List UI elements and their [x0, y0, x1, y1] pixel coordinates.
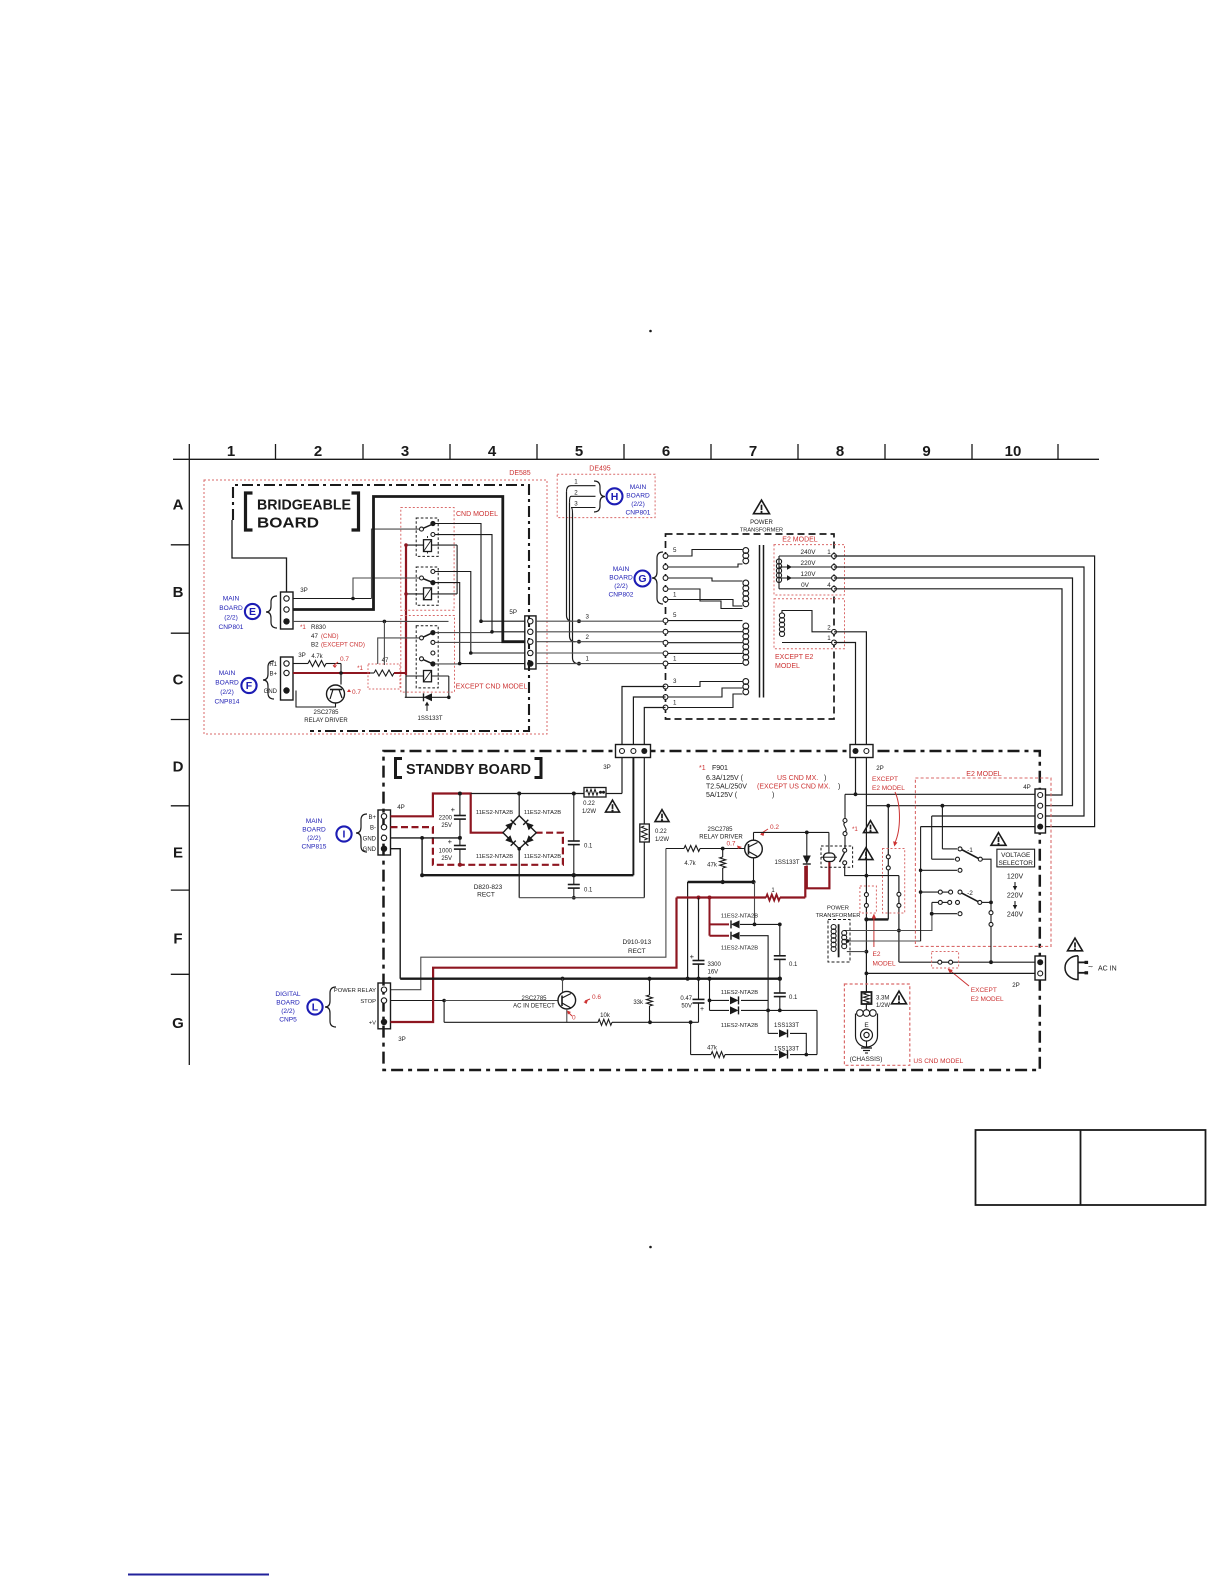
svg-text:47: 47 [382, 658, 389, 664]
svg-text:*1: *1 [852, 826, 858, 833]
H pins hooks to wire bundle [567, 486, 572, 492]
svg-text:5: 5 [575, 443, 583, 460]
secondary top wire to switch area [844, 930, 847, 932]
fuse F901 symbol [844, 794, 846, 818]
svg-text:TRANSFORMER: TRANSFORMER [740, 528, 783, 534]
svg-text:4: 4 [488, 443, 497, 460]
svg-text:BOARD: BOARD [276, 1000, 300, 1007]
svg-text:VOLTAGE: VOLTAGE [1001, 852, 1030, 859]
power transformer standby dashed box [828, 920, 850, 963]
secondary coil EXCEPT E2 [779, 613, 784, 618]
svg-text:2SC2785: 2SC2785 [521, 996, 547, 1002]
svg-text:3300: 3300 [708, 962, 722, 968]
bridge top node wire [518, 794, 520, 816]
maroon from diode to relay coil [807, 861, 830, 888]
gray wire relay3 left circle [378, 638, 420, 664]
switch -2 row1 [919, 890, 923, 894]
EXCEPT E2 secondary red dotted box [774, 599, 845, 649]
svg-text:I: I [343, 829, 346, 841]
relay RY901 dashed box [821, 846, 853, 867]
svg-text:AC IN: AC IN [1098, 966, 1117, 973]
svg-text:3.3M: 3.3M [876, 996, 889, 1002]
svg-text:25V: 25V [441, 856, 452, 862]
svg-text:AC IN DETECT: AC IN DETECT [513, 1004, 555, 1010]
row y794.3 to 4P pin1 [845, 793, 1035, 795]
primary coil group2 [743, 580, 749, 586]
top rail y793.5 [471, 793, 584, 795]
svg-text:4.7k: 4.7k [684, 861, 696, 867]
relay RY1 coil [424, 540, 432, 552]
svg-text:240V: 240V [1007, 912, 1024, 919]
svg-text:11ES2-NTA2B: 11ES2-NTA2B [721, 990, 758, 996]
diode 1SS133T row [405, 696, 449, 698]
connector E CNP801 3P [281, 592, 294, 629]
transistor emitter wire to GND [296, 691, 336, 708]
svg-text:(2/2): (2/2) [614, 583, 628, 590]
svg-text:1SS133T: 1SS133T [774, 1047, 799, 1053]
svg-text:0.7: 0.7 [340, 656, 349, 663]
svg-text:25V: 25V [441, 823, 452, 829]
svg-text:11ES2-NTA2B: 11ES2-NTA2B [721, 914, 758, 920]
svg-text:GND: GND [363, 836, 377, 842]
vertical 866.4 with jumper E2 [865, 805, 867, 892]
grid row ticks [171, 544, 190, 546]
wire relay contact bottom [845, 865, 899, 876]
transformer primary pins group1 [663, 554, 668, 559]
svg-text:(2/2): (2/2) [220, 689, 234, 696]
transformer primary pins group3 [663, 684, 668, 689]
coil tap wire to voltage selector corner [920, 940, 922, 942]
svg-text:3: 3 [673, 678, 677, 685]
relay coil 2 feed wire [406, 593, 457, 595]
wire STOP to base and rail [391, 1000, 445, 1002]
switch -2 blade [962, 893, 978, 901]
svg-text:BOARD: BOARD [626, 493, 650, 500]
svg-text:L: L [312, 1002, 319, 1014]
switch -1 common down [982, 859, 991, 962]
svg-text:2: 2 [586, 634, 590, 641]
svg-text:BOARD: BOARD [609, 575, 633, 582]
svg-text:220V: 220V [801, 560, 817, 567]
svg-text:D910-913: D910-913 [623, 939, 652, 946]
transformer standby secondary coil [842, 931, 847, 936]
svg-text:5: 5 [673, 547, 677, 554]
wire 3P pin1 down to rail [621, 758, 623, 794]
svg-text:50V: 50V [681, 1004, 692, 1010]
svg-text:3P: 3P [603, 764, 611, 771]
svg-text:B+: B+ [368, 815, 376, 821]
svg-text:H: H [611, 491, 619, 503]
svg-text:BOARD: BOARD [219, 605, 243, 612]
svg-text:1: 1 [673, 656, 677, 663]
red dashed box CND MODEL [401, 508, 454, 611]
svg-text:(EXCEPT US CND MX.: (EXCEPT US CND MX. [757, 784, 830, 791]
svg-text:): ) [824, 775, 826, 782]
switch -1 wires [941, 806, 943, 849]
wire except-E2 pin2 down to standby 2P [834, 632, 866, 748]
wire to spark gap [865, 1004, 867, 1010]
svg-text:0.1: 0.1 [584, 888, 593, 894]
svg-text:MODEL: MODEL [873, 961, 897, 968]
svg-text:POWER: POWER [827, 906, 849, 912]
row to 5P pin5 [460, 663, 525, 665]
rows 5P to power transformer [536, 620, 666, 622]
wire D911 output [740, 936, 768, 1034]
svg-text:11ES2-NTA2B: 11ES2-NTA2B [721, 946, 758, 952]
svg-text:(EXCEPT CND): (EXCEPT CND) [321, 642, 365, 649]
emitter of Q902 to 10k rail [566, 1009, 568, 1022]
svg-text:EXCEPT: EXCEPT [971, 987, 997, 994]
svg-text:T2.5AL/250V: T2.5AL/250V [706, 784, 747, 791]
svg-text:MAIN: MAIN [306, 818, 323, 825]
svg-text:RECT: RECT [477, 892, 495, 899]
vertical 898.9 with jumper [898, 876, 900, 893]
svg-text:MAIN: MAIN [613, 566, 630, 573]
svg-text:B+: B+ [269, 672, 277, 678]
relay RY3 coil [424, 671, 432, 682]
svg-text:(CND): (CND) [321, 633, 339, 640]
svg-text:3P: 3P [398, 1036, 406, 1043]
svg-text:(CHASSIS): (CHASSIS) [850, 1056, 883, 1063]
circled node G [635, 571, 651, 587]
wire 2P filled pin down [855, 758, 857, 795]
wire GND2 down [391, 849, 401, 979]
brace for connector F [263, 661, 274, 699]
svg-text:0: 0 [572, 1015, 576, 1022]
maroon wire B+ to bridge [391, 794, 504, 833]
svg-text:(2/2): (2/2) [631, 501, 645, 508]
secondary voltage rows [779, 555, 834, 557]
svg-text:(2/2): (2/2) [281, 1008, 295, 1015]
standby board title [396, 759, 403, 778]
svg-text:B2: B2 [311, 642, 319, 649]
svg-text:3P: 3P [298, 652, 306, 659]
grid left rail [188, 444, 190, 1065]
svg-text:*1: *1 [699, 765, 706, 772]
svg-text:2SC2785: 2SC2785 [707, 827, 733, 833]
resistor 47 red dotted box [368, 664, 400, 689]
row y826.6 to 4P pin4 [921, 826, 1035, 828]
maroon wire +V [391, 898, 677, 1023]
svg-text:SELECTOR: SELECTOR [999, 860, 1034, 867]
primary coil group4 [743, 679, 749, 685]
secondary mid tap wire [847, 940, 921, 942]
svg-text:E2: E2 [873, 951, 881, 958]
wire from board edge to connector E [232, 520, 287, 592]
svg-text:C: C [173, 672, 184, 689]
svg-text:D: D [173, 759, 184, 776]
svg-text:1: 1 [586, 656, 590, 663]
svg-text:3: 3 [401, 443, 409, 460]
svg-text:0.7: 0.7 [726, 841, 735, 848]
thick wire E pin2 to 5P pin3 [293, 497, 525, 642]
resistor 4.7k on R1 line [293, 663, 308, 665]
svg-text:33k: 33k [633, 1000, 644, 1006]
svg-text:8: 8 [836, 443, 844, 460]
svg-text:1: 1 [227, 443, 235, 460]
grid header line [173, 458, 1099, 460]
pin 2 of E [284, 607, 289, 612]
bridge diode arrows [505, 820, 516, 831]
circled node L [307, 999, 322, 1014]
thick rail y978.7 [400, 978, 780, 980]
svg-text:RECT: RECT [628, 948, 646, 955]
svg-text:*1: *1 [300, 624, 306, 631]
svg-text:BOARD: BOARD [257, 515, 319, 532]
svg-text:3: 3 [586, 614, 590, 621]
svg-text:0.2: 0.2 [770, 824, 779, 831]
vertical 888.3 with jumper [887, 806, 889, 855]
svg-text:1: 1 [827, 635, 831, 642]
AC line 2 [866, 972, 1035, 974]
maroon feeds to D910 diodes [709, 898, 711, 936]
connector 2P on standby top [850, 745, 873, 758]
wire B+ row maroon [293, 672, 370, 674]
circled node I [336, 826, 351, 841]
brace for connector L [325, 987, 336, 1027]
power relay wire from connector L [391, 849, 666, 990]
primary winding connections group3 [668, 682, 743, 687]
emitter column down to diode row [754, 882, 756, 924]
chassis ground symbol [866, 1041, 868, 1048]
svg-text:RELAY DRIVER: RELAY DRIVER [699, 835, 743, 841]
warning triangle AC plug [1068, 938, 1083, 951]
svg-text:+: + [690, 952, 695, 961]
svg-text:TRANSFORMER: TRANSFORMER [816, 913, 861, 919]
resistor 47k bottom row [690, 1022, 692, 1054]
transistor Q902 2SC2785 AC IN DETECT [558, 991, 576, 1009]
row y805.4 to 4P pin2 [866, 805, 1035, 807]
footer blue line [128, 1574, 269, 1576]
rail 10k y1022.3 [444, 1021, 598, 1023]
svg-text:5A/125V (: 5A/125V ( [706, 792, 738, 799]
svg-text:E: E [173, 845, 183, 862]
relay RY1 contact [422, 525, 432, 530]
svg-text:11ES2-NTA2B: 11ES2-NTA2B [476, 854, 513, 860]
svg-text:11ES2-NTA2B: 11ES2-NTA2B [721, 1023, 758, 1029]
svg-text:CNP815: CNP815 [302, 844, 327, 851]
relay coil 1 feed wire [406, 544, 457, 546]
svg-text:2: 2 [574, 490, 578, 497]
svg-text:1: 1 [673, 700, 677, 707]
svg-text:~: ~ [1088, 962, 1093, 972]
coil link vertical [456, 545, 458, 594]
svg-text:MAIN: MAIN [223, 596, 240, 603]
wire relay2 common to 5P pin5 [435, 583, 460, 664]
svg-text:+V: +V [369, 1021, 376, 1027]
diode 11ES2-NTA2B D910 [731, 920, 740, 928]
svg-text:2: 2 [314, 443, 322, 460]
vertical from E pin3 row to B+ area [383, 621, 385, 665]
brace for connector E [266, 596, 277, 628]
svg-text:0.22: 0.22 [583, 801, 595, 807]
svg-text:POWER: POWER [750, 520, 773, 526]
svg-text:4P: 4P [397, 804, 405, 811]
bridgeable board dash-dot outline [233, 485, 529, 731]
svg-text:1SS133T: 1SS133T [417, 716, 442, 722]
primary winding connections group1 [668, 550, 743, 557]
svg-text:EXCEPT E2: EXCEPT E2 [775, 654, 813, 661]
vertical link 687.6 [687, 882, 689, 979]
svg-text:R1: R1 [269, 662, 277, 668]
svg-text:-2: -2 [967, 890, 973, 897]
secondary tap arrows [787, 564, 792, 570]
svg-text:B-: B- [370, 826, 376, 832]
svg-text:0.47: 0.47 [680, 996, 692, 1002]
resistor 47k vertical [722, 849, 724, 858]
transistor Q901 2SC2785 relay driver standby [745, 840, 763, 858]
relay RY901 contact [843, 848, 847, 852]
thick link 866-888 [866, 918, 888, 920]
svg-text:E2 MODEL: E2 MODEL [971, 996, 1004, 1003]
svg-text:-1: -1 [967, 847, 973, 854]
pin 3 of E [283, 618, 289, 624]
svg-text:CND MODEL: CND MODEL [456, 511, 498, 518]
svg-text:1SS133T: 1SS133T [774, 1023, 799, 1029]
circled node E [245, 604, 260, 619]
svg-text:5P: 5P [509, 609, 517, 616]
svg-text:G: G [172, 1015, 184, 1032]
wire relay3 to 5P pin2 row [435, 632, 492, 634]
svg-text:2P: 2P [1012, 982, 1020, 989]
diode 11ES2-NTA2B D912 row [709, 979, 711, 1011]
svg-text:220V: 220V [1007, 893, 1024, 900]
capacitor 0.1 upper [573, 794, 575, 842]
svg-text:10: 10 [1005, 443, 1022, 460]
diode 1SS133T bridgeable [424, 693, 433, 701]
relay RY1 dashed box [416, 518, 438, 556]
svg-text:MODEL: MODEL [775, 663, 800, 670]
wire except-E2 pin1 down to standby 2P [834, 643, 856, 749]
warning triangle near 0.22 [606, 800, 620, 812]
transformer core [759, 545, 761, 698]
US CND MODEL red dashed box [844, 984, 909, 1065]
capacitor 3300 16V [698, 898, 700, 961]
wire relay2 top to 5P pin4 [435, 572, 471, 654]
wire 3P pin2 down to thick rail [632, 758, 634, 876]
wire 120V to right trunk [834, 578, 1073, 806]
secondary bottom wire [847, 951, 867, 953]
svg-text:): ) [838, 784, 840, 791]
diode 1SS133T middle [768, 1032, 778, 1034]
vertical GND to thick rail [421, 838, 423, 875]
E2 MODEL secondary red dotted box [774, 545, 845, 595]
wire 220V to right trunk [834, 567, 1084, 816]
svg-text:US CND MODEL: US CND MODEL [913, 1058, 963, 1065]
svg-text:*1: *1 [357, 665, 363, 672]
brace of G block [652, 552, 663, 604]
svg-text:1000: 1000 [439, 849, 453, 855]
pin B+ of F [284, 670, 289, 675]
svg-text:E2 MODEL: E2 MODEL [872, 785, 905, 792]
wire collector to coil top [828, 832, 830, 853]
connector F CNP814 3P [281, 657, 294, 700]
wire bundle from H down to transformer rows [567, 492, 573, 622]
svg-text:4: 4 [827, 582, 831, 589]
svg-text:47k: 47k [707, 863, 718, 869]
rows transformer group3 down to standby 3P [622, 687, 666, 745]
relay RY2 dashed box [416, 567, 438, 605]
svg-text:+: + [700, 1006, 704, 1013]
pin GND of F [283, 687, 289, 693]
svg-text:R830: R830 [311, 624, 326, 631]
svg-text:US CND MX.: US CND MX. [777, 775, 818, 782]
thick rail y882 [688, 881, 754, 883]
row to 5P pin2 [492, 631, 525, 633]
row to 5P pin1 [481, 620, 525, 622]
svg-text:4P: 4P [1023, 784, 1031, 791]
connector L CNP5 digital board [378, 983, 391, 1029]
connector I CNP815 4P [378, 810, 391, 855]
relay RY2 contact [431, 570, 435, 574]
chassis bell enclosure [856, 1014, 878, 1048]
svg-text:A: A [173, 497, 184, 514]
svg-text:E: E [864, 1022, 869, 1029]
svg-text:1/2W: 1/2W [655, 837, 669, 843]
svg-text:0.6: 0.6 [592, 994, 601, 1001]
wire 240V to right trunk [834, 556, 1095, 827]
svg-text:47k: 47k [707, 1046, 718, 1052]
svg-text:EXCEPT CND MODEL: EXCEPT CND MODEL [456, 684, 528, 691]
secondary pins EXCEPT E2 [832, 629, 837, 634]
diode 1SS133T bottom [779, 1051, 788, 1059]
wire R1 to transistor base [340, 664, 342, 685]
secondary pins E2 [832, 554, 837, 559]
svg-text:E2 MODEL: E2 MODEL [782, 537, 818, 544]
svg-text:GND: GND [264, 689, 278, 695]
E2 MODEL big red dashed box [915, 778, 1051, 946]
svg-text:+: + [451, 805, 456, 814]
relay RY3 dashed box double pole [416, 626, 438, 688]
chassis rivet circles [861, 1029, 873, 1041]
diode 11ES2-NTA2B D913 row [710, 1009, 730, 1011]
svg-text:F: F [246, 680, 253, 692]
svg-text:G: G [638, 573, 646, 585]
wire relay3 pole2 row [435, 663, 460, 665]
relay RY3 contact 1 [430, 630, 435, 635]
switch -2 row2 [932, 901, 938, 903]
relay coil 3 feed wire [406, 675, 449, 677]
wire fuse to relay contact [844, 836, 846, 849]
transformer standby primary coil [831, 925, 836, 930]
bridgeable board title [246, 493, 253, 530]
gray wire relay1 to E pin1 [372, 529, 420, 598]
arrow under diode [426, 703, 428, 711]
capacitor 0.1 c [779, 924, 781, 955]
connector 5P [525, 616, 536, 669]
switch -2 row3 [932, 913, 957, 915]
red dashed box E2 jumper [860, 886, 877, 913]
svg-text:4.7k: 4.7k [311, 654, 323, 660]
svg-text:0V: 0V [801, 582, 810, 589]
warning triangle pair near fuse [864, 821, 878, 833]
diode 1SS133T standby vertical [806, 832, 808, 856]
svg-text:CNP5: CNP5 [279, 1017, 297, 1024]
except E2 winding wires [782, 611, 834, 632]
svg-text:(2/2): (2/2) [307, 835, 321, 842]
thick ground rail y875.2 [422, 874, 633, 876]
svg-text:1/2W: 1/2W [582, 809, 596, 815]
capacitor 2200 25V [458, 792, 462, 796]
primary coil group3 [743, 623, 749, 629]
registration dot bottom [649, 1246, 652, 1249]
standby board dash-dot outline [384, 751, 1040, 1070]
svg-text:120V: 120V [1007, 874, 1024, 881]
vertical resistor 0.22 1/2W boxed [643, 758, 645, 825]
svg-text:RELAY DRIVER: RELAY DRIVER [304, 718, 348, 724]
svg-text:2P: 2P [876, 765, 884, 772]
svg-text:240V: 240V [801, 549, 817, 556]
